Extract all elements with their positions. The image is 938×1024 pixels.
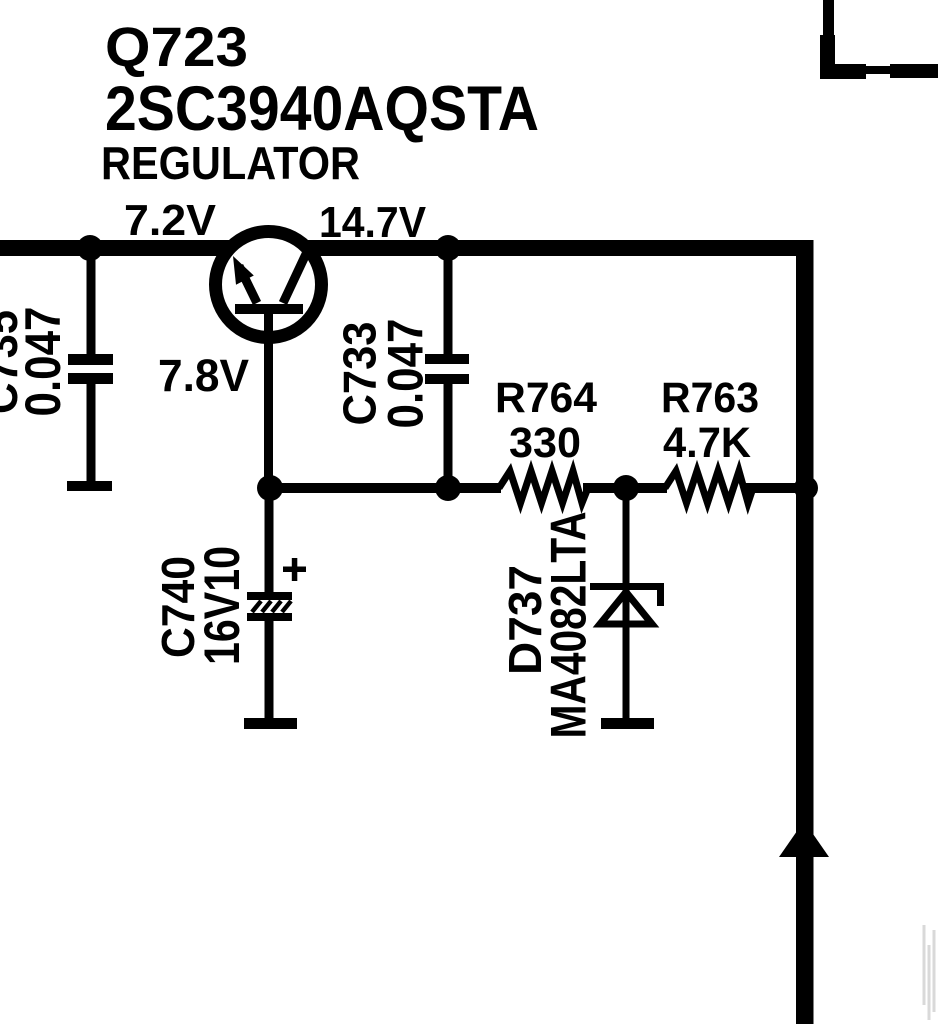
svg-text:R763: R763 — [661, 374, 759, 422]
svg-text:R764: R764 — [495, 374, 597, 422]
svg-text:MA4082LTA: MA4082LTA — [541, 512, 597, 739]
svg-text:330: 330 — [509, 419, 581, 467]
svg-text:0.047: 0.047 — [15, 307, 71, 417]
svg-text:REGULATOR: REGULATOR — [101, 137, 360, 189]
svg-text:Q723: Q723 — [105, 15, 248, 78]
svg-text:2SC3940AQSTA: 2SC3940AQSTA — [105, 74, 539, 144]
svg-text:7.2V: 7.2V — [124, 196, 217, 245]
svg-text:16V10: 16V10 — [194, 546, 250, 665]
svg-text:0.047: 0.047 — [378, 319, 434, 429]
svg-text:4.7K: 4.7K — [663, 419, 751, 467]
svg-text:14.7V: 14.7V — [319, 198, 427, 247]
svg-text:7.8V: 7.8V — [158, 350, 249, 401]
